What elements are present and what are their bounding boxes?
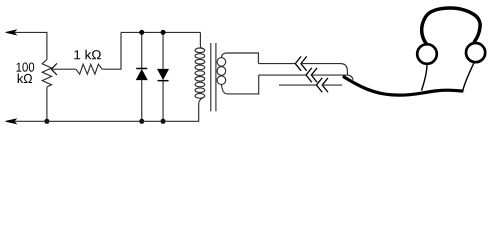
wire: secondary bottom lead bbox=[227, 75, 259, 94]
label 1 kOhm bbox=[74, 50, 101, 59]
headphone right earpiece cord bbox=[463, 63, 474, 91]
wire: plug line B left bbox=[259, 74, 306, 76]
arrowhead top-left (to antenna) bbox=[6, 30, 17, 35]
diode D2 triangle bbox=[157, 69, 169, 80]
plug chevron C jack bbox=[316, 78, 322, 92]
wire: plug line C left bbox=[279, 84, 316, 86]
wire: secondary top lead bbox=[227, 53, 259, 64]
potentiometer R1 100 kOhm zigzag bbox=[42, 60, 51, 87]
label 100 kOhm bbox=[17, 63, 35, 72]
headphone band bbox=[422, 8, 480, 44]
transformer T1 primary lead top bbox=[200, 32, 203, 48]
wire: plug line A right bbox=[301, 64, 348, 75]
wire: pot bottom lead bbox=[46, 87, 48, 121]
wire: plug line C right bbox=[322, 84, 342, 86]
potentiometer wiper arrow bbox=[51, 63, 57, 75]
headphone cord (thick) bbox=[344, 77, 462, 95]
resistor 1 kOhm bbox=[76, 64, 102, 74]
wire: top antenna lead bbox=[14, 32, 47, 59]
transformer T1 core bbox=[210, 43, 212, 111]
transformer T1 secondary winding bbox=[217, 58, 226, 67]
arrowhead bottom-left (to ground) bbox=[6, 119, 17, 124]
junction dot top bus left diode bbox=[139, 30, 144, 35]
wire: bottom bus bbox=[14, 104, 199, 122]
junction dot bottom bus left diode bbox=[139, 119, 144, 124]
plug chevron B jack bbox=[306, 68, 312, 82]
transformer T1 primary winding bbox=[195, 48, 205, 53]
headphone left earpiece cord bbox=[422, 65, 428, 91]
junction dot bottom bus right diode bbox=[161, 119, 166, 124]
plug chevron A plug bbox=[301, 56, 307, 70]
transformer T1 secondary lead top bbox=[222, 53, 227, 58]
transformer T1 primary lead bottom bbox=[199, 98, 204, 104]
headphone right earpiece bbox=[466, 43, 485, 62]
diode D2 (right, conducts down) leads bbox=[162, 32, 164, 69]
wire: plug line B right bbox=[311, 75, 353, 80]
headphone left earpiece bbox=[417, 44, 437, 64]
wire: top bus bbox=[121, 31, 200, 33]
diode D1 triangle bbox=[136, 69, 148, 80]
plug chevron C plug bbox=[322, 78, 328, 92]
junction dot top bus right diode bbox=[161, 30, 166, 35]
wire: plug line A left bbox=[258, 63, 295, 65]
junction dot bottom bus pot bbox=[44, 119, 49, 124]
plug chevron A jack bbox=[295, 56, 301, 70]
diode D1 (left, conducts up) leads bbox=[141, 32, 143, 68]
diode D1 cathode bar bbox=[136, 68, 147, 70]
diode D2 cathode bar bbox=[158, 80, 169, 82]
plug chevron B plug bbox=[311, 68, 317, 82]
wire: resistor to top bus bbox=[102, 32, 121, 69]
wire: wiper to resistor bbox=[51, 68, 76, 70]
transformer T1 secondary lead bottom bbox=[222, 85, 228, 94]
